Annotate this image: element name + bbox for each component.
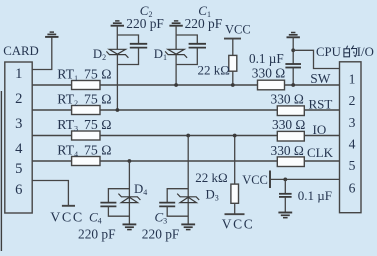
svg-text:6: 6 — [349, 181, 356, 196]
svg-text:6: 6 — [15, 182, 22, 198]
resistor 22k bottom — [231, 184, 239, 203]
svg-text:IO: IO — [313, 122, 327, 137]
svg-text:5: 5 — [15, 161, 22, 177]
capacitor C2 220pF — [130, 44, 147, 48]
VCC bar bottom-left — [62, 205, 75, 207]
resistor R-SW 330R — [258, 80, 285, 90]
ground 0.1uF top — [287, 33, 300, 38]
resistor RT4 75R — [72, 157, 100, 166]
capacitor 0.1uF bottom — [279, 194, 292, 197]
junction 22k-SW — [231, 83, 235, 87]
wire rail CLK to ground via D4 — [128, 161, 130, 224]
svg-text:CPU: CPU — [316, 45, 341, 59]
capacitor C4 220pF — [100, 203, 116, 207]
svg-text:3: 3 — [15, 116, 22, 132]
capacitor 0.1uF top — [285, 64, 301, 68]
wire 0.1uF to ground — [284, 197, 286, 213]
svg-text:0.1 µF: 0.1 µF — [298, 188, 332, 203]
svg-text:SW: SW — [310, 71, 330, 86]
svg-text:4: 4 — [349, 137, 356, 152]
wire rail RST — [32, 109, 339, 111]
wire branch to C2 — [117, 35, 138, 44]
resistor RT3 75R — [72, 131, 100, 140]
svg-text:2: 2 — [15, 91, 22, 107]
svg-text:1: 1 — [349, 72, 356, 87]
resistor RT2 75R — [72, 106, 100, 115]
junction 0.1uF-pin5 — [283, 178, 287, 182]
svg-text:22 kΩ: 22 kΩ — [195, 170, 227, 185]
junction 22k-IO — [233, 134, 237, 138]
wire branch to C4 — [108, 189, 129, 203]
svg-text:CLK: CLK — [307, 145, 334, 160]
wire VCC to R 22k — [232, 39, 234, 56]
ground D4/C4 — [123, 224, 137, 229]
diode D4 — [118, 194, 140, 203]
svg-text:220 pF: 220 pF — [126, 16, 164, 31]
svg-text:RT175 Ω: RT175 Ω — [57, 67, 111, 83]
wire rail CLK — [32, 160, 339, 162]
wire D1 to rail SW — [175, 55, 177, 85]
wire to CPU power pin — [293, 50, 339, 68]
resistor R-RST 330R — [277, 106, 304, 116]
wire CARD pin1 to ground — [32, 37, 52, 70]
wire rail SW — [32, 84, 339, 86]
wire VCC to CPU pin5 — [270, 178, 340, 180]
svg-text:I/O: I/O — [357, 45, 374, 59]
svg-text:220 pF: 220 pF — [142, 227, 180, 242]
wire rail IO to ground via D3 — [187, 136, 189, 225]
wire C1 to D1 cathode — [176, 48, 197, 65]
VCC bar pin5 (vertical) — [269, 171, 271, 189]
wire rail IO — [32, 135, 339, 137]
ground C2/D2 — [111, 21, 124, 26]
junction D2-RST — [116, 108, 120, 112]
ground C1/D1 — [169, 21, 182, 26]
svg-text:5: 5 — [349, 158, 356, 173]
resistor 22k top — [229, 55, 237, 71]
capacitor C3 220pF — [159, 203, 175, 207]
wire 22k to VCC — [234, 203, 236, 214]
svg-text:4: 4 — [15, 141, 23, 157]
ground 0.1uF bottom — [278, 213, 292, 218]
wire to 0.1uF bottom — [284, 179, 286, 193]
junction D1-SW — [174, 83, 178, 87]
svg-text:220 pF: 220 pF — [78, 227, 116, 242]
svg-text:1: 1 — [15, 66, 22, 82]
wire rail IO to R 22k bottom — [234, 136, 236, 185]
svg-text:VCC: VCC — [50, 210, 84, 225]
wire ground to D1 — [175, 26, 177, 50]
svg-text:22 kΩ: 22 kΩ — [198, 62, 230, 77]
wire ground to cap — [292, 37, 294, 64]
svg-text:CARD: CARD — [3, 44, 39, 58]
wire C3 return — [167, 206, 188, 216]
diode D1 — [165, 49, 187, 58]
svg-text:VCC: VCC — [222, 216, 255, 231]
svg-text:RST: RST — [309, 96, 333, 111]
junction gnd-CPU wire — [291, 48, 295, 52]
svg-text:3: 3 — [349, 115, 356, 130]
resistor RT1 75R — [72, 81, 100, 90]
junction cap-SW — [291, 83, 295, 87]
svg-text:RT275 Ω: RT275 Ω — [57, 92, 111, 108]
resistor R-IO 330R — [277, 131, 304, 141]
svg-text:VCC: VCC — [242, 173, 268, 187]
connector U1 CPU box — [340, 62, 362, 213]
resistor R-CLK 330R — [277, 157, 304, 167]
svg-text:330 Ω: 330 Ω — [272, 117, 305, 132]
diode D2 — [106, 49, 128, 58]
page edge line — [0, 91, 2, 251]
svg-text:0.1 µF: 0.1 µF — [249, 51, 284, 66]
wire ground to D2 — [116, 26, 118, 50]
ground D3/C3 — [181, 224, 195, 229]
wire 22k to rail SW — [232, 71, 234, 85]
svg-text:RT475 Ω: RT475 Ω — [57, 143, 111, 159]
wire cap to rail SW — [292, 68, 294, 86]
svg-text:2: 2 — [349, 93, 356, 108]
svg-text:330 Ω: 330 Ω — [271, 91, 304, 106]
junction D4-CLK — [127, 159, 131, 163]
svg-text:RT375 Ω: RT375 Ω — [57, 117, 111, 133]
wire C4 return — [108, 206, 129, 216]
VCC bar top — [224, 38, 241, 40]
svg-text:VCC: VCC — [225, 23, 251, 37]
VCC bar bottom — [225, 213, 245, 215]
wire CARD pin6 to VCC — [32, 181, 68, 206]
capacitor C1 220pF — [189, 44, 206, 48]
svg-text:330 Ω: 330 Ω — [271, 143, 304, 158]
wire branch to C1 — [176, 35, 197, 44]
svg-text:330 Ω: 330 Ω — [252, 66, 285, 81]
diode D3 — [177, 194, 199, 203]
svg-text:220 pF: 220 pF — [185, 16, 223, 31]
wire D2 to rail RST — [116, 55, 118, 110]
junction D3-IO — [186, 134, 190, 138]
wire branch to C3 — [167, 189, 188, 203]
ground pin1 — [45, 32, 58, 37]
wire C2 to D2 cathode — [117, 48, 138, 65]
connector J1 CARD box — [5, 62, 32, 213]
